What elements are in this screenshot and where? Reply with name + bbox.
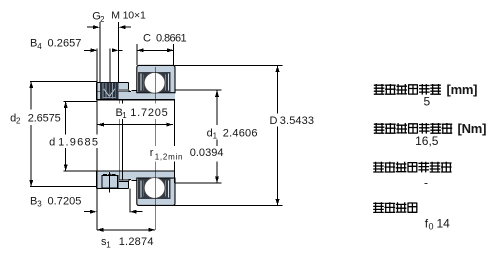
svg-text:14: 14 bbox=[437, 216, 451, 230]
s1 dimension bbox=[97, 229, 155, 231]
D label bbox=[268, 114, 317, 127]
svg-text:1: 1 bbox=[213, 132, 218, 141]
d1 dimension bbox=[175, 89, 222, 91]
d dimension bbox=[64, 100, 97, 102]
svg-text:16,5: 16,5 bbox=[415, 134, 439, 148]
svg-text:M 10×1: M 10×1 bbox=[111, 9, 146, 21]
svg-text:C: C bbox=[143, 33, 151, 45]
svg-text:1: 1 bbox=[122, 111, 127, 120]
svg-text:d: d bbox=[49, 136, 55, 148]
B1 dimension bbox=[97, 124, 172, 126]
svg-text:0.0394: 0.0394 bbox=[190, 147, 224, 159]
G2 dimension arrows bbox=[87, 26, 93, 28]
svg-text:[mm]: [mm] bbox=[447, 82, 478, 97]
right spec panel: header 1 (hex key size) bbox=[374, 84, 441, 95]
svg-text:4: 4 bbox=[37, 42, 42, 51]
header 4 (calculation factor) bbox=[373, 202, 417, 213]
svg-text:0.2657: 0.2657 bbox=[48, 38, 82, 50]
svg-text:[Nm]: [Nm] bbox=[458, 121, 487, 136]
r 1,2min label bbox=[148, 146, 226, 162]
svg-text:3.5433: 3.5433 bbox=[280, 115, 314, 127]
svg-text:2.4606: 2.4606 bbox=[223, 127, 258, 139]
svg-text:r: r bbox=[150, 147, 154, 159]
svg-text:2.6575: 2.6575 bbox=[28, 112, 61, 124]
svg-text:-: - bbox=[424, 176, 428, 190]
left face projection line bbox=[96, 100, 98, 230]
B1 label bbox=[113, 104, 171, 120]
top half section bbox=[97, 65, 175, 100]
svg-text:0.7205: 0.7205 bbox=[48, 195, 82, 207]
header 2 (recommended tightening torque) bbox=[374, 123, 452, 134]
bottom half section mirrored bbox=[97, 171, 175, 206]
right face projection line bbox=[174, 100, 176, 183]
B4 extension lines bbox=[96, 49, 98, 83]
svg-text:1.2874: 1.2874 bbox=[119, 236, 154, 248]
d2 dimension bbox=[30, 81, 97, 83]
C dimension bbox=[136, 44, 138, 65]
d2 label bbox=[8, 110, 64, 126]
svg-text:2: 2 bbox=[16, 117, 21, 126]
centerline through ball centers bbox=[154, 67, 156, 230]
svg-text:1,2min: 1,2min bbox=[155, 153, 183, 162]
svg-text:D: D bbox=[270, 115, 278, 127]
d label bbox=[46, 135, 99, 149]
B3 dimension bbox=[84, 211, 90, 213]
svg-text:2: 2 bbox=[100, 15, 105, 24]
svg-text:3: 3 bbox=[37, 200, 42, 209]
set screw top (sectioned, dark with threads) bbox=[100, 82, 119, 99]
D dimension bbox=[175, 64, 283, 66]
svg-text:1.7205: 1.7205 bbox=[130, 107, 167, 119]
svg-text:0.8661: 0.8661 bbox=[156, 33, 187, 45]
collar joint projection lines bbox=[119, 100, 121, 180]
G2 / M thread extension lines bbox=[99, 22, 101, 82]
svg-text:1: 1 bbox=[106, 241, 111, 250]
header 3 (suitable rubber seating ring) bbox=[373, 162, 451, 173]
svg-text:1.9685: 1.9685 bbox=[58, 136, 98, 148]
B4 dimension arrows bbox=[84, 49, 91, 51]
d1 label bbox=[205, 125, 261, 140]
svg-text:5: 5 bbox=[424, 95, 431, 109]
svg-text:0: 0 bbox=[429, 222, 434, 232]
set screw bottom (outline view) bbox=[102, 172, 118, 192]
